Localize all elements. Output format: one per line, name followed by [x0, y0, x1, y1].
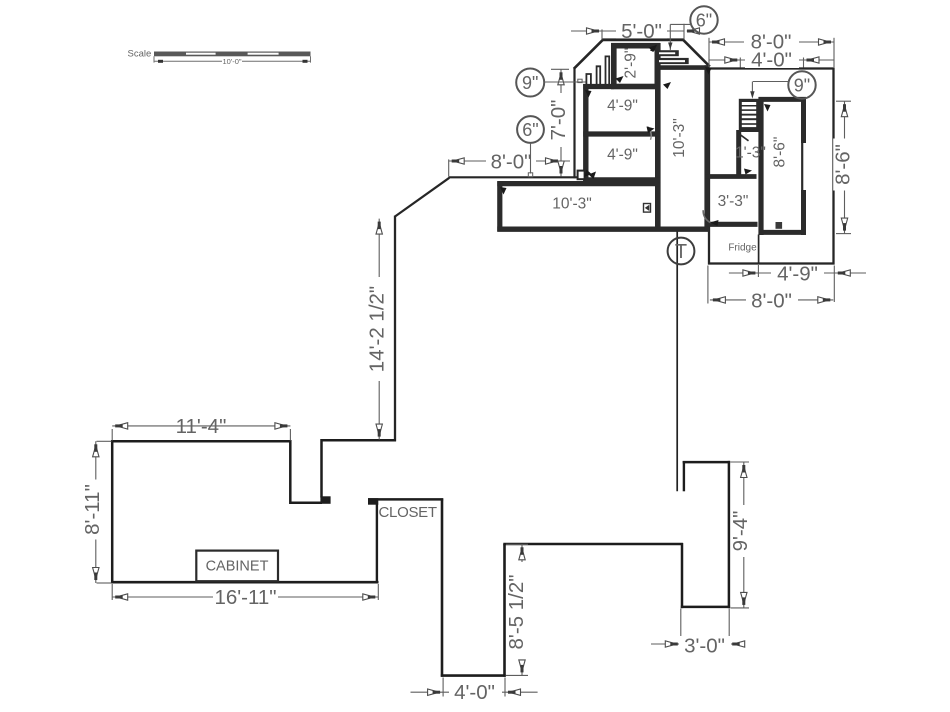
svg-text:6": 6": [522, 120, 538, 140]
svg-text:8'-6": 8'-6": [772, 137, 789, 168]
closet tab joint: [368, 498, 378, 505]
dim 11'-4" arrows: [115, 423, 128, 429]
svg-text:2'-9": 2'-9": [623, 48, 640, 79]
dim left 8'-0" lines: [449, 160, 570, 162]
dim 7'-0" line: [560, 69, 562, 176]
svg-text:10'-3": 10'-3": [552, 196, 591, 213]
dim 11'-4" lines: [112, 425, 290, 427]
counter box left: [497, 181, 502, 231]
dim top 8'-0" lines: [709, 41, 834, 43]
arrow corridor right top: [705, 67, 712, 75]
dim 14'-2 1/2" arrows: [376, 222, 382, 235]
wall top (chamfer flat): [602, 38, 685, 41]
circle 9" right: [788, 71, 815, 98]
counter / corridor bottom wall: [497, 226, 709, 231]
dim 9'-4" lines: [743, 462, 745, 608]
arrow cabinet interior: [616, 76, 624, 83]
svg-text:3'-3": 3'-3": [718, 193, 749, 210]
svg-text:16'-11": 16'-11": [214, 586, 276, 609]
svg-text:10'-0": 10'-0": [222, 57, 241, 66]
dim 16'-11" lines: [112, 596, 378, 598]
dim bottom 4'-9" arrows (outside): [743, 270, 756, 276]
svg-text:5'-0": 5'-0": [621, 20, 662, 43]
niche door diagonal: [740, 134, 749, 141]
counter box 10'-3" top: [497, 181, 658, 186]
dim top 8'-0" arrows (inside): [712, 39, 725, 45]
circle 6" top: [690, 6, 717, 33]
svg-text:4'-9": 4'-9": [607, 98, 638, 115]
dim 7'-0" arrows: [558, 72, 564, 85]
wall under comb teeth: [583, 84, 614, 89]
dim 3'-0" lines: [651, 643, 744, 645]
wall left of 4'-9" rooms: [583, 84, 588, 183]
svg-text:9": 9": [794, 76, 810, 96]
door arc corridor right: [703, 210, 710, 222]
wall outer rectangle right part of kitchen: [709, 69, 834, 264]
dim 8'-5 1/2" arrows: [519, 547, 525, 560]
T leader line: [676, 232, 678, 492]
svg-text:CABINET: CABINET: [206, 559, 269, 575]
leader 9" left: [544, 81, 585, 83]
svg-text:4'-0": 4'-0": [751, 49, 792, 72]
dim 5'-0" arrows (outside): [587, 28, 600, 34]
wall kitchen bottom thin: [449, 176, 579, 178]
dim 8'-11" arrows: [93, 444, 99, 457]
svg-text:8'-5 1/2": 8'-5 1/2": [505, 574, 528, 649]
svg-text:Scale: Scale: [128, 49, 152, 60]
svg-text:CLOSET: CLOSET: [379, 504, 437, 521]
arrow divider right: [647, 127, 655, 134]
closet left wall: [376, 504, 378, 582]
arrow corridor top: [663, 82, 671, 89]
fins right of cabinet box: [659, 50, 679, 56]
corridor top wall: [659, 65, 708, 70]
dim 14'-2 1/2" line: [378, 219, 380, 440]
wall divider between 4'-9" rooms: [583, 131, 660, 136]
tall box 8'-6" walls: [758, 97, 763, 235]
svg-text:4'-9": 4'-9": [777, 263, 818, 286]
circle T: [668, 238, 695, 265]
scale dimension line 10'-0": [154, 56, 311, 62]
room labels: [623, 48, 640, 79]
dim 16'-11" arrows: [115, 594, 128, 600]
dim 3'-0" arrows (outside): [665, 641, 678, 647]
door arc divider right: [648, 127, 652, 140]
room top wall: [683, 461, 730, 464]
arrow room1 top-left: [585, 90, 592, 98]
arrow room2 bottom-left: [584, 170, 592, 178]
svg-text:6": 6": [696, 11, 712, 31]
dim top 4'-0" arrows (outside): [725, 57, 738, 63]
niche 1'-3" left wall: [736, 130, 741, 177]
scale bar: [154, 52, 311, 57]
room bottom wall: [111, 581, 379, 584]
svg-text:8'-11": 8'-11": [81, 484, 104, 535]
arrow near jamb: [589, 172, 597, 180]
svg-text:1'-3": 1'-3": [735, 145, 766, 162]
wall bottom of 4'-9" rooms: [583, 177, 660, 182]
column bottom wall: [441, 674, 506, 677]
outlet symbol in counter: [644, 204, 651, 213]
wall diagonal to lower room: [395, 178, 450, 217]
svg-text:8'-0": 8'-0": [491, 151, 532, 174]
dim right 8'-6" arrows: [841, 104, 847, 117]
dim 5'-0" line: [571, 30, 684, 32]
wall up from column bottom: [503, 544, 506, 677]
leader 6" top: [670, 23, 692, 25]
leader 9" right: [753, 81, 789, 83]
room bottom wall: [681, 606, 730, 609]
wall upper notch: [322, 440, 397, 497]
dim top 4'-0" lines: [709, 59, 834, 61]
arrow cabinet top right: [649, 45, 657, 52]
dim bottom 8'-0" arrows: [713, 297, 726, 303]
dim 9'-4" arrows: [741, 465, 747, 478]
small dark square in 8'-6" box: [776, 222, 783, 229]
closet column right wall: [441, 498, 444, 676]
svg-text:8'-0": 8'-0": [751, 290, 792, 313]
dim bottom 4'-0" arrows (outside): [428, 689, 441, 695]
comb teeth on top-left counter: [586, 56, 609, 85]
wall chamfer left: [574, 40, 603, 69]
room upper left wall: [683, 461, 685, 491]
svg-text:10'-3": 10'-3": [671, 118, 688, 157]
room 3'-3" top wall: [705, 174, 757, 179]
dim right 8'-6" lines: [844, 101, 846, 233]
dim bottom 4'-9" lines: [729, 272, 866, 274]
svg-text:3'-0": 3'-0": [684, 634, 725, 657]
svg-text:4'-9": 4'-9": [607, 147, 638, 164]
dim bottom 8'-0" lines: [710, 299, 833, 301]
svg-text:9": 9": [522, 73, 538, 93]
circle 9" left: [516, 69, 544, 97]
wall kitchen left: [573, 68, 575, 179]
dim texts with white gaps: [616, 21, 667, 38]
long wall to right room: [503, 543, 683, 546]
arrow counter top-left: [500, 187, 507, 195]
arrow 3'-3" bottom-left: [710, 220, 719, 226]
ladder / shelf block: [739, 99, 760, 132]
leader 6" left: [530, 143, 532, 174]
room right wall: [728, 461, 731, 608]
cabinet box: [196, 551, 278, 582]
arrow niche: [744, 169, 752, 175]
room lower left wall: [681, 543, 684, 608]
circle 6" left: [517, 116, 544, 143]
room 3'-3" bottom wall: [705, 222, 758, 227]
svg-text:Fridge: Fridge: [728, 243, 757, 254]
room outline left: [112, 441, 322, 582]
dim left 8'-0" arrows (inside): [452, 158, 465, 164]
svg-text:11'-4": 11'-4": [176, 415, 227, 438]
svg-text:7'-0": 7'-0": [547, 100, 570, 141]
svg-text:9'-4": 9'-4": [729, 511, 752, 552]
corridor right wall: [704, 65, 709, 231]
cabinet box 2'-9": [614, 46, 658, 87]
wall vertical long left of kitchen: [394, 216, 396, 442]
dim bottom 4'-0" lines: [411, 691, 538, 693]
dim 8'-5 1/2" lines: [521, 544, 523, 675]
fridge divider line: [758, 235, 760, 264]
svg-text:T: T: [675, 241, 687, 263]
wall right of rooms / corridor left: [655, 43, 661, 231]
wall tab joint: [320, 496, 330, 504]
dim 8'-11" lines: [95, 441, 97, 583]
svg-text:14'-2 1/2": 14'-2 1/2": [365, 286, 388, 372]
arrow 8'-6" top-left: [764, 104, 771, 112]
door jamb block kitchen bottom-left: [578, 171, 585, 180]
svg-text:8'-6": 8'-6": [832, 144, 855, 185]
svg-text:4'-0": 4'-0": [454, 681, 495, 704]
wall chamfer right: [684, 40, 710, 66]
closet top wall: [368, 498, 443, 501]
